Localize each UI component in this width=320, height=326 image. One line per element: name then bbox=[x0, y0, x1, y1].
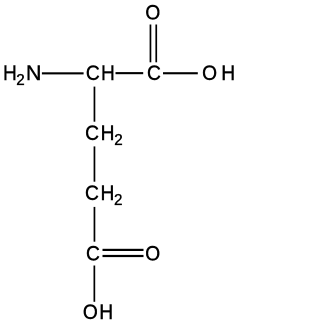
single bond C-OH (bottom) bbox=[94, 266, 96, 302]
svg-text:H: H bbox=[221, 61, 235, 85]
svg-text:H: H bbox=[3, 61, 17, 85]
svg-text:C: C bbox=[85, 121, 99, 145]
svg-text:2: 2 bbox=[114, 192, 122, 209]
svg-text:H: H bbox=[101, 61, 115, 85]
double bond C=O (bottom), line 2 bbox=[103, 255, 144, 257]
svg-text:O: O bbox=[145, 1, 160, 25]
single bond C-OH (top) bbox=[163, 72, 198, 74]
svg-text:H: H bbox=[99, 300, 113, 324]
svg-text:H: H bbox=[101, 121, 115, 145]
svg-text:O: O bbox=[145, 241, 160, 265]
svg-text:H: H bbox=[101, 181, 115, 205]
svg-text:N: N bbox=[26, 60, 42, 85]
svg-text:C: C bbox=[86, 241, 100, 265]
svg-text:2: 2 bbox=[16, 72, 24, 89]
svg-text:O: O bbox=[202, 61, 217, 85]
double bond C=O (top), line 2 bbox=[155, 25, 157, 63]
single bond H2N-CH bbox=[42, 72, 84, 74]
double bond C=O (top), line 1 bbox=[150, 25, 152, 63]
svg-text:O: O bbox=[83, 300, 98, 324]
single bond CH2-C bbox=[94, 207, 96, 242]
single bond CH2-CH2 bbox=[94, 146, 96, 181]
svg-text:C: C bbox=[85, 181, 99, 205]
svg-text:C: C bbox=[147, 61, 161, 85]
double bond C=O (bottom), line 1 bbox=[103, 249, 144, 251]
svg-text:2: 2 bbox=[114, 132, 122, 149]
single bond CH-C bbox=[116, 72, 144, 74]
single bond CH-CH2 bbox=[94, 87, 96, 122]
svg-text:C: C bbox=[86, 61, 100, 85]
